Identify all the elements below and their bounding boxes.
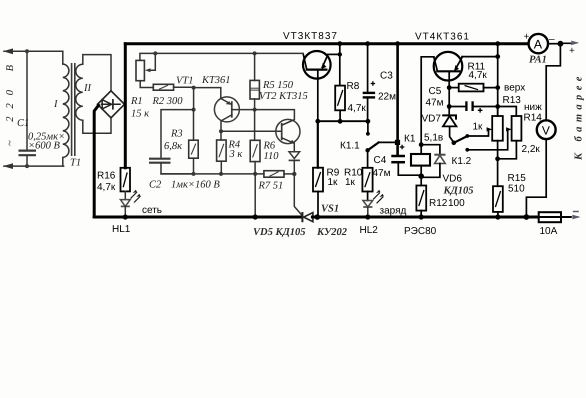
transistor VT3	[303, 51, 340, 121]
wire VT4 left lead to K1 coil	[421, 57, 434, 156]
node R3 bottom	[192, 172, 196, 176]
wire bridge minus to bottom bus	[94, 105, 98, 216]
bridge rectifier diamond	[98, 91, 125, 118]
fuse FU 10A	[534, 212, 572, 222]
svg-text:C1: C1	[17, 118, 29, 129]
LED HL2	[363, 190, 384, 217]
svg-text:510: 510	[508, 184, 525, 195]
svg-text:~ 220 В: ~ 220 В	[5, 57, 16, 146]
terminal plus output arrow	[560, 41, 579, 46]
svg-text:С4: С4	[374, 155, 387, 166]
capacitor C3	[363, 44, 375, 122]
node R6 R7 junction	[253, 172, 257, 176]
svg-text:R5 150: R5 150	[262, 80, 294, 91]
svg-text:1к: 1к	[328, 177, 339, 188]
zener VD7	[442, 107, 456, 143]
ammeter PA1	[529, 34, 561, 53]
svg-text:5,1в: 5,1в	[424, 133, 443, 144]
svg-text:VT4КТ361: VT4КТ361	[415, 32, 470, 43]
wire node to C2	[161, 110, 194, 159]
resistor R10	[362, 150, 372, 200]
svg-text:1мк×160 В: 1мк×160 В	[171, 180, 220, 191]
svg-text:I: I	[53, 99, 58, 110]
thyristor VS1	[302, 212, 317, 222]
resistor R5	[250, 53, 259, 109]
svg-text:К1.2: К1.2	[452, 156, 472, 167]
svg-text:R14: R14	[524, 113, 543, 124]
wire y121 line	[318, 120, 368, 122]
resistor R8	[335, 86, 345, 122]
potentiometer R13	[492, 107, 503, 187]
node R13 R14 bottom junction	[495, 156, 500, 161]
node C5 left	[447, 104, 452, 109]
node C3 bottom junction	[366, 119, 371, 124]
svg-text:РЭС80: РЭС80	[404, 226, 437, 237]
svg-text:R3: R3	[170, 129, 183, 140]
transistor VT2	[255, 110, 300, 152]
svg-text:HL1: HL1	[112, 224, 131, 235]
svg-text:4,7к: 4,7к	[348, 103, 367, 114]
node R6 drop on bus	[253, 214, 258, 219]
transformer T1 secondary winding II	[76, 55, 111, 134]
svg-text:верх: верх	[504, 83, 525, 94]
wire left vertical riser bridge plus to top bus	[124, 44, 127, 168]
resistor R3	[189, 110, 199, 174]
svg-text:×600 В: ×600 В	[28, 141, 60, 152]
node R15 on bus	[495, 214, 500, 219]
node HL1 on bus	[123, 214, 128, 219]
svg-text:R12: R12	[429, 198, 448, 209]
node R3 top junction	[192, 108, 196, 112]
svg-text:VD7: VD7	[422, 114, 442, 125]
node R8 top on bus	[337, 41, 342, 46]
node VT4 base R11	[447, 85, 452, 90]
svg-text:КУ202: КУ202	[316, 227, 348, 238]
svg-text:A: A	[534, 37, 543, 51]
resistor R2	[153, 84, 193, 90]
svg-text:R16: R16	[97, 171, 116, 182]
svg-text:T1: T1	[70, 158, 81, 169]
svg-text:VD6: VD6	[443, 174, 463, 185]
wire R6 node down to bus	[254, 174, 256, 217]
svg-text:R13: R13	[503, 95, 522, 106]
svg-text:VD5 КД105: VD5 КД105	[253, 227, 306, 238]
wire top bus	[125, 42, 528, 45]
wire VT4 emitter to right riser	[462, 56, 498, 58]
node VS1 anode R9 junction	[315, 214, 321, 220]
node VD5 R7 junction	[292, 172, 296, 176]
node R11 right on riser	[495, 85, 500, 90]
wire VT1 collector to VT2 base	[221, 130, 282, 132]
node R4 bottom	[219, 172, 223, 176]
node VT4 emitter riser	[495, 54, 500, 59]
svg-text:22м: 22м	[378, 92, 396, 103]
diode VD5	[289, 152, 300, 174]
node VT1 base R5 R6 junction	[253, 108, 257, 112]
wire R8 riser	[339, 44, 341, 86]
wire K1 branch thick riser	[396, 44, 399, 156]
svg-text:3 к: 3 к	[229, 149, 243, 160]
svg-text:PA1: PA1	[529, 55, 547, 66]
node C1 top junction	[25, 49, 29, 53]
svg-text:HL2: HL2	[360, 225, 379, 236]
resistor R4	[217, 131, 227, 174]
capacitor C5	[449, 88, 498, 113]
svg-text:6,8к: 6,8к	[164, 141, 182, 152]
node VT1 collector	[219, 129, 223, 133]
svg-text:15 к: 15 к	[131, 109, 149, 120]
transformer T1 primary winding I	[63, 51, 69, 166]
svg-text:VT1: VT1	[176, 76, 194, 87]
svg-text:+: +	[524, 32, 530, 43]
svg-text:47м: 47м	[426, 98, 444, 109]
svg-text:–: –	[549, 34, 555, 45]
svg-text:КД105: КД105	[443, 186, 474, 197]
wire bottom bus left segment	[94, 216, 301, 219]
svg-text:ниж: ниж	[524, 102, 542, 113]
svg-text:110: 110	[264, 151, 280, 162]
capacitor C4	[391, 145, 421, 176]
svg-text:C2: C2	[149, 180, 162, 191]
node riser on bus	[495, 41, 500, 46]
capacitor C1	[19, 51, 37, 166]
svg-text:+: +	[569, 46, 575, 57]
wire R1 bottom to R2	[140, 81, 153, 88]
svg-text:V: V	[542, 123, 550, 137]
wire bottom bus right segment	[317, 216, 538, 219]
wire inner supply line y53	[140, 53, 303, 60]
wire R2 node down to R3 node	[193, 88, 195, 110]
svg-text:2,2к: 2,2к	[522, 144, 541, 155]
resistor R12	[416, 176, 426, 216]
svg-text:R8: R8	[347, 81, 360, 92]
node R1 wiper junction	[153, 51, 157, 55]
node K1 branch on bus	[395, 41, 400, 46]
resistor R15	[493, 186, 503, 216]
node K1 top VD6	[419, 142, 424, 147]
node HL2 on bus	[365, 214, 370, 219]
terminal minus output arrow	[572, 212, 581, 220]
node VT3 emitter R8 riser	[338, 52, 342, 56]
resistor R11	[449, 84, 498, 92]
resistor R6	[250, 110, 260, 174]
node R5 top	[253, 51, 257, 55]
svg-text:1к: 1к	[473, 122, 484, 133]
svg-text:К1.1: К1.1	[340, 141, 360, 152]
svg-text:КТ361: КТ361	[201, 75, 231, 86]
node R2 right junction	[192, 86, 196, 90]
wire PA1 minus to voltmeter	[546, 44, 560, 121]
transformer T1 core	[72, 63, 75, 156]
svg-text:заряд: заряд	[380, 206, 407, 217]
svg-text:R1: R1	[130, 96, 143, 107]
wire right riser	[497, 44, 499, 116]
svg-text:К1: К1	[404, 134, 416, 145]
node C4 VD6 R12 junction	[418, 173, 424, 179]
transistor VT1	[214, 97, 254, 131]
svg-text:C3: C3	[380, 71, 393, 82]
resistor R16	[121, 168, 131, 192]
svg-text:R2 300: R2 300	[152, 96, 184, 107]
wire AC input bottom line	[3, 163, 64, 169]
wire R9 top lead	[317, 121, 319, 168]
capacitor C2	[149, 159, 194, 174]
svg-text:VS1: VS1	[321, 204, 339, 215]
svg-text:1к: 1к	[345, 177, 356, 188]
node C3 top on bus	[365, 41, 370, 46]
node R12 on bus	[419, 214, 424, 219]
svg-text:R15: R15	[508, 173, 527, 184]
svg-text:R7 51: R7 51	[258, 181, 284, 192]
svg-text:R6: R6	[263, 141, 276, 152]
voltmeter PV	[526, 120, 555, 216]
svg-text:100: 100	[448, 198, 465, 209]
svg-text:К батарее: К батарее	[574, 72, 585, 161]
wire bottom inner line y174	[161, 173, 264, 175]
wire R2 node to VT1 emitter	[194, 88, 221, 99]
transistor VT4	[434, 52, 463, 88]
svg-text:II: II	[83, 83, 91, 94]
svg-text:4,7к: 4,7к	[469, 70, 488, 81]
wire VS1 gate	[294, 174, 302, 215]
contact K1.2	[452, 127, 512, 151]
node PA1 output	[558, 41, 564, 47]
node R8 bottom	[338, 119, 343, 124]
wire AC input top line	[3, 48, 63, 54]
svg-text:10А: 10А	[540, 226, 558, 237]
potentiometer R14	[498, 107, 522, 159]
node C5 right on riser	[495, 104, 500, 109]
node C1 bottom junction	[25, 164, 29, 168]
potentiometer R1	[136, 53, 155, 80]
LED HL1	[120, 190, 140, 217]
resistor R7	[264, 171, 294, 178]
svg-text:VT3КТ837: VT3КТ837	[283, 31, 338, 42]
contact K1.1	[365, 121, 400, 152]
node VT3 collector line left	[315, 119, 320, 124]
node voltmeter on bus	[524, 214, 530, 220]
diode VD6	[421, 145, 445, 178]
svg-text:4,7к: 4,7к	[97, 182, 116, 193]
relay coil K1	[411, 154, 430, 176]
svg-text:47м: 47м	[373, 168, 391, 179]
svg-text:C5: C5	[429, 86, 442, 97]
resistor R9	[313, 168, 323, 216]
svg-text:VT2 КТ315: VT2 КТ315	[259, 91, 308, 102]
svg-text:сеть: сеть	[142, 205, 162, 216]
